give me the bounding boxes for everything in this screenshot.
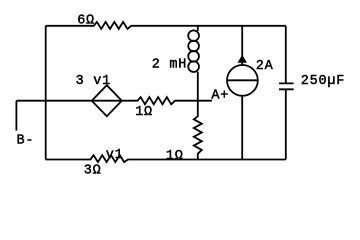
svg-text:1Ω: 1Ω (135, 105, 153, 120)
svg-text:A+: A+ (211, 89, 229, 104)
svg-text:250µF: 250µF (301, 74, 345, 89)
svg-text:1Ω: 1Ω (166, 149, 184, 164)
svg-text:2A: 2A (256, 59, 274, 74)
svg-text:3Ω: 3Ω (84, 164, 102, 179)
svg-text:6Ω: 6Ω (77, 13, 95, 28)
svg-text:v1: v1 (106, 148, 124, 163)
svg-text:3 v1: 3 v1 (76, 74, 111, 89)
svg-text:B-: B- (17, 134, 35, 149)
svg-text:2 mH: 2 mH (152, 58, 187, 73)
